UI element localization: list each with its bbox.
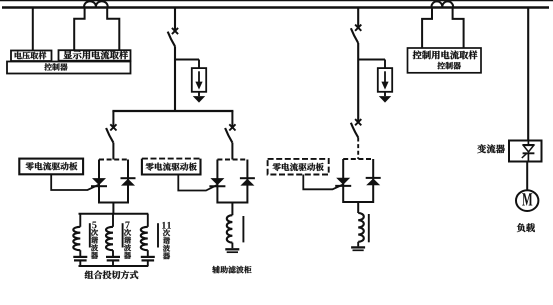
drive board box 3 零电流驱动板 (dashed) [268, 159, 329, 175]
distribution wire (y=111) [112, 110, 233, 112]
arrester FV1: arrester box [192, 68, 206, 92]
arrester FV1: arrow inside [198, 71, 200, 83]
arrester FV2: arrow inside [384, 71, 386, 83]
wire coil to capacitor [79, 250, 81, 256]
wire: branch2 to module [231, 143, 233, 160]
box: display current sampling 显示用电流取样 [59, 50, 131, 61]
box: controller 控制器 (left) [7, 62, 131, 74]
wire capacitor to bottom bus [112, 260, 114, 266]
label 7 次谐波器 [125, 222, 129, 229]
inductor L2 core bar [122, 223, 124, 247]
wire: branch1 drop [112, 111, 114, 126]
converter box 变流器 [509, 141, 542, 162]
wire: column1 down to distribution [174, 46, 176, 112]
label 次谐波器 col1 [91, 229, 98, 259]
thyristor V1 (left leg, gated) [92, 178, 106, 185]
diode/thyristor V2 (right leg) [121, 177, 136, 179]
switch Q3 (branch 3) [355, 119, 361, 125]
wire: branch1 to module [112, 143, 114, 160]
inductor L5 core bar [368, 214, 370, 242]
label 次谐波器 col3 [163, 229, 170, 259]
CT2 control current transformer winding [432, 1, 454, 6]
arrester FV1: ground arrow [198, 92, 200, 96]
letter M [522, 193, 532, 205]
wire: module2 to aux inductor [231, 203, 233, 216]
label 控制用电流取样 [413, 50, 478, 59]
diode/thyristor V6 (right leg) [366, 177, 381, 179]
thyristor module 2 box [217, 160, 247, 203]
gate wire 1 [51, 174, 99, 190]
11th harmonic filter branch wire [147, 214, 149, 227]
inductor L3 core bar [157, 223, 159, 247]
label 控制器 left [44, 63, 67, 70]
switch QS1 (column 1) [172, 28, 178, 34]
wire: module3 to inductor [357, 202, 359, 213]
7th harmonic filter branch wire [112, 214, 114, 227]
diode/thyristor V4 (right leg) [240, 177, 255, 179]
wire coil to capacitor [147, 250, 149, 256]
inductor L1 [73, 227, 80, 250]
thyristor V5 (left leg, gated) [336, 178, 350, 185]
wire: column1 from bus [174, 8, 176, 30]
arrester FV1: wire tap [175, 59, 199, 61]
drive board box 1 零电流驱动板 [19, 159, 83, 175]
label 组合投切方式 [85, 271, 138, 280]
box: voltage sampling 电压取样 [11, 51, 52, 62]
switch Q1 (branch 1) [110, 124, 116, 130]
label 负载 [517, 223, 535, 232]
5th harmonic filter branch wire [79, 214, 81, 227]
label 11 次谐波器 [162, 222, 171, 229]
gate wire 3 [303, 175, 343, 190]
arrester FV2: wire tap [358, 59, 385, 61]
drive board box 2 零电流驱动板 (dashed top) [142, 159, 201, 175]
capacitor C2 [106, 256, 120, 258]
wire capacitor to bottom bus [147, 260, 149, 266]
inductor L2 [106, 227, 113, 250]
label 零电流驱动板 1 [26, 162, 78, 170]
label 显示用电流取样 [64, 50, 129, 59]
label 零电流驱动板 2 [146, 163, 197, 171]
ground (aux filter) [225, 248, 239, 250]
wire: bus tap to voltage sampling [32, 8, 34, 51]
label 5 次谐波器 [92, 222, 96, 229]
label 电压取样 [15, 52, 47, 60]
wire coil to capacitor [112, 250, 114, 256]
top border line [0, 0, 553, 2]
arrester FV2: ground arrow [384, 92, 386, 96]
CT1 display current transformer winding [84, 1, 108, 6]
box: control current sampling 控制用电流取样 / 控制器 [408, 48, 482, 73]
CT2 pedestal [422, 8, 432, 48]
gate wire 2 [178, 175, 217, 191]
thyristor module 3 box [343, 159, 373, 202]
filter splitter bus [79, 213, 149, 215]
wire inductor to ground [231, 243, 233, 249]
thyristor V3 (left leg, gated) [210, 178, 224, 185]
wire capacitor to bottom bus [79, 260, 81, 266]
thyristor symbol inside converter [527, 141, 529, 146]
wire: column2 from bus [357, 8, 359, 27]
aux inductor core bar [242, 216, 244, 242]
capacitor C3 [141, 256, 155, 258]
wire: module1 to filter splitter [112, 203, 114, 214]
motor circle M (load) [516, 190, 538, 211]
main bus [2, 6, 549, 9]
arrester FV2: arrester box [378, 68, 392, 92]
label 辅助滤波柜 [212, 266, 251, 273]
label 次谐波器 col2 [124, 229, 131, 259]
thyristor module 1 box [99, 160, 128, 203]
wire: load column from bus [527, 8, 529, 141]
aux inductor L4 [227, 215, 233, 242]
wire: branch2 drop [231, 111, 233, 126]
switch QS2 (column 2) [355, 25, 361, 31]
dashed wire to module 3 [357, 138, 359, 160]
inductor L5 (right bulge) [358, 213, 364, 242]
inductor L3 [141, 227, 148, 250]
filter bottom bus [79, 265, 149, 267]
label 变流器 [477, 144, 504, 153]
wire: column2 down [357, 43, 359, 121]
ground (branch 3) [351, 246, 365, 248]
wire: converter to motor [526, 162, 528, 191]
wire inductor to ground [357, 242, 359, 247]
label 控制器 right [437, 62, 460, 69]
switch Q2 (branch 2) [229, 124, 235, 130]
CT1 pedestal [74, 8, 84, 50]
capacitor C1 [73, 256, 87, 258]
label 零电流驱动板 3 [273, 163, 324, 171]
inductor L1 core bar [89, 223, 91, 247]
